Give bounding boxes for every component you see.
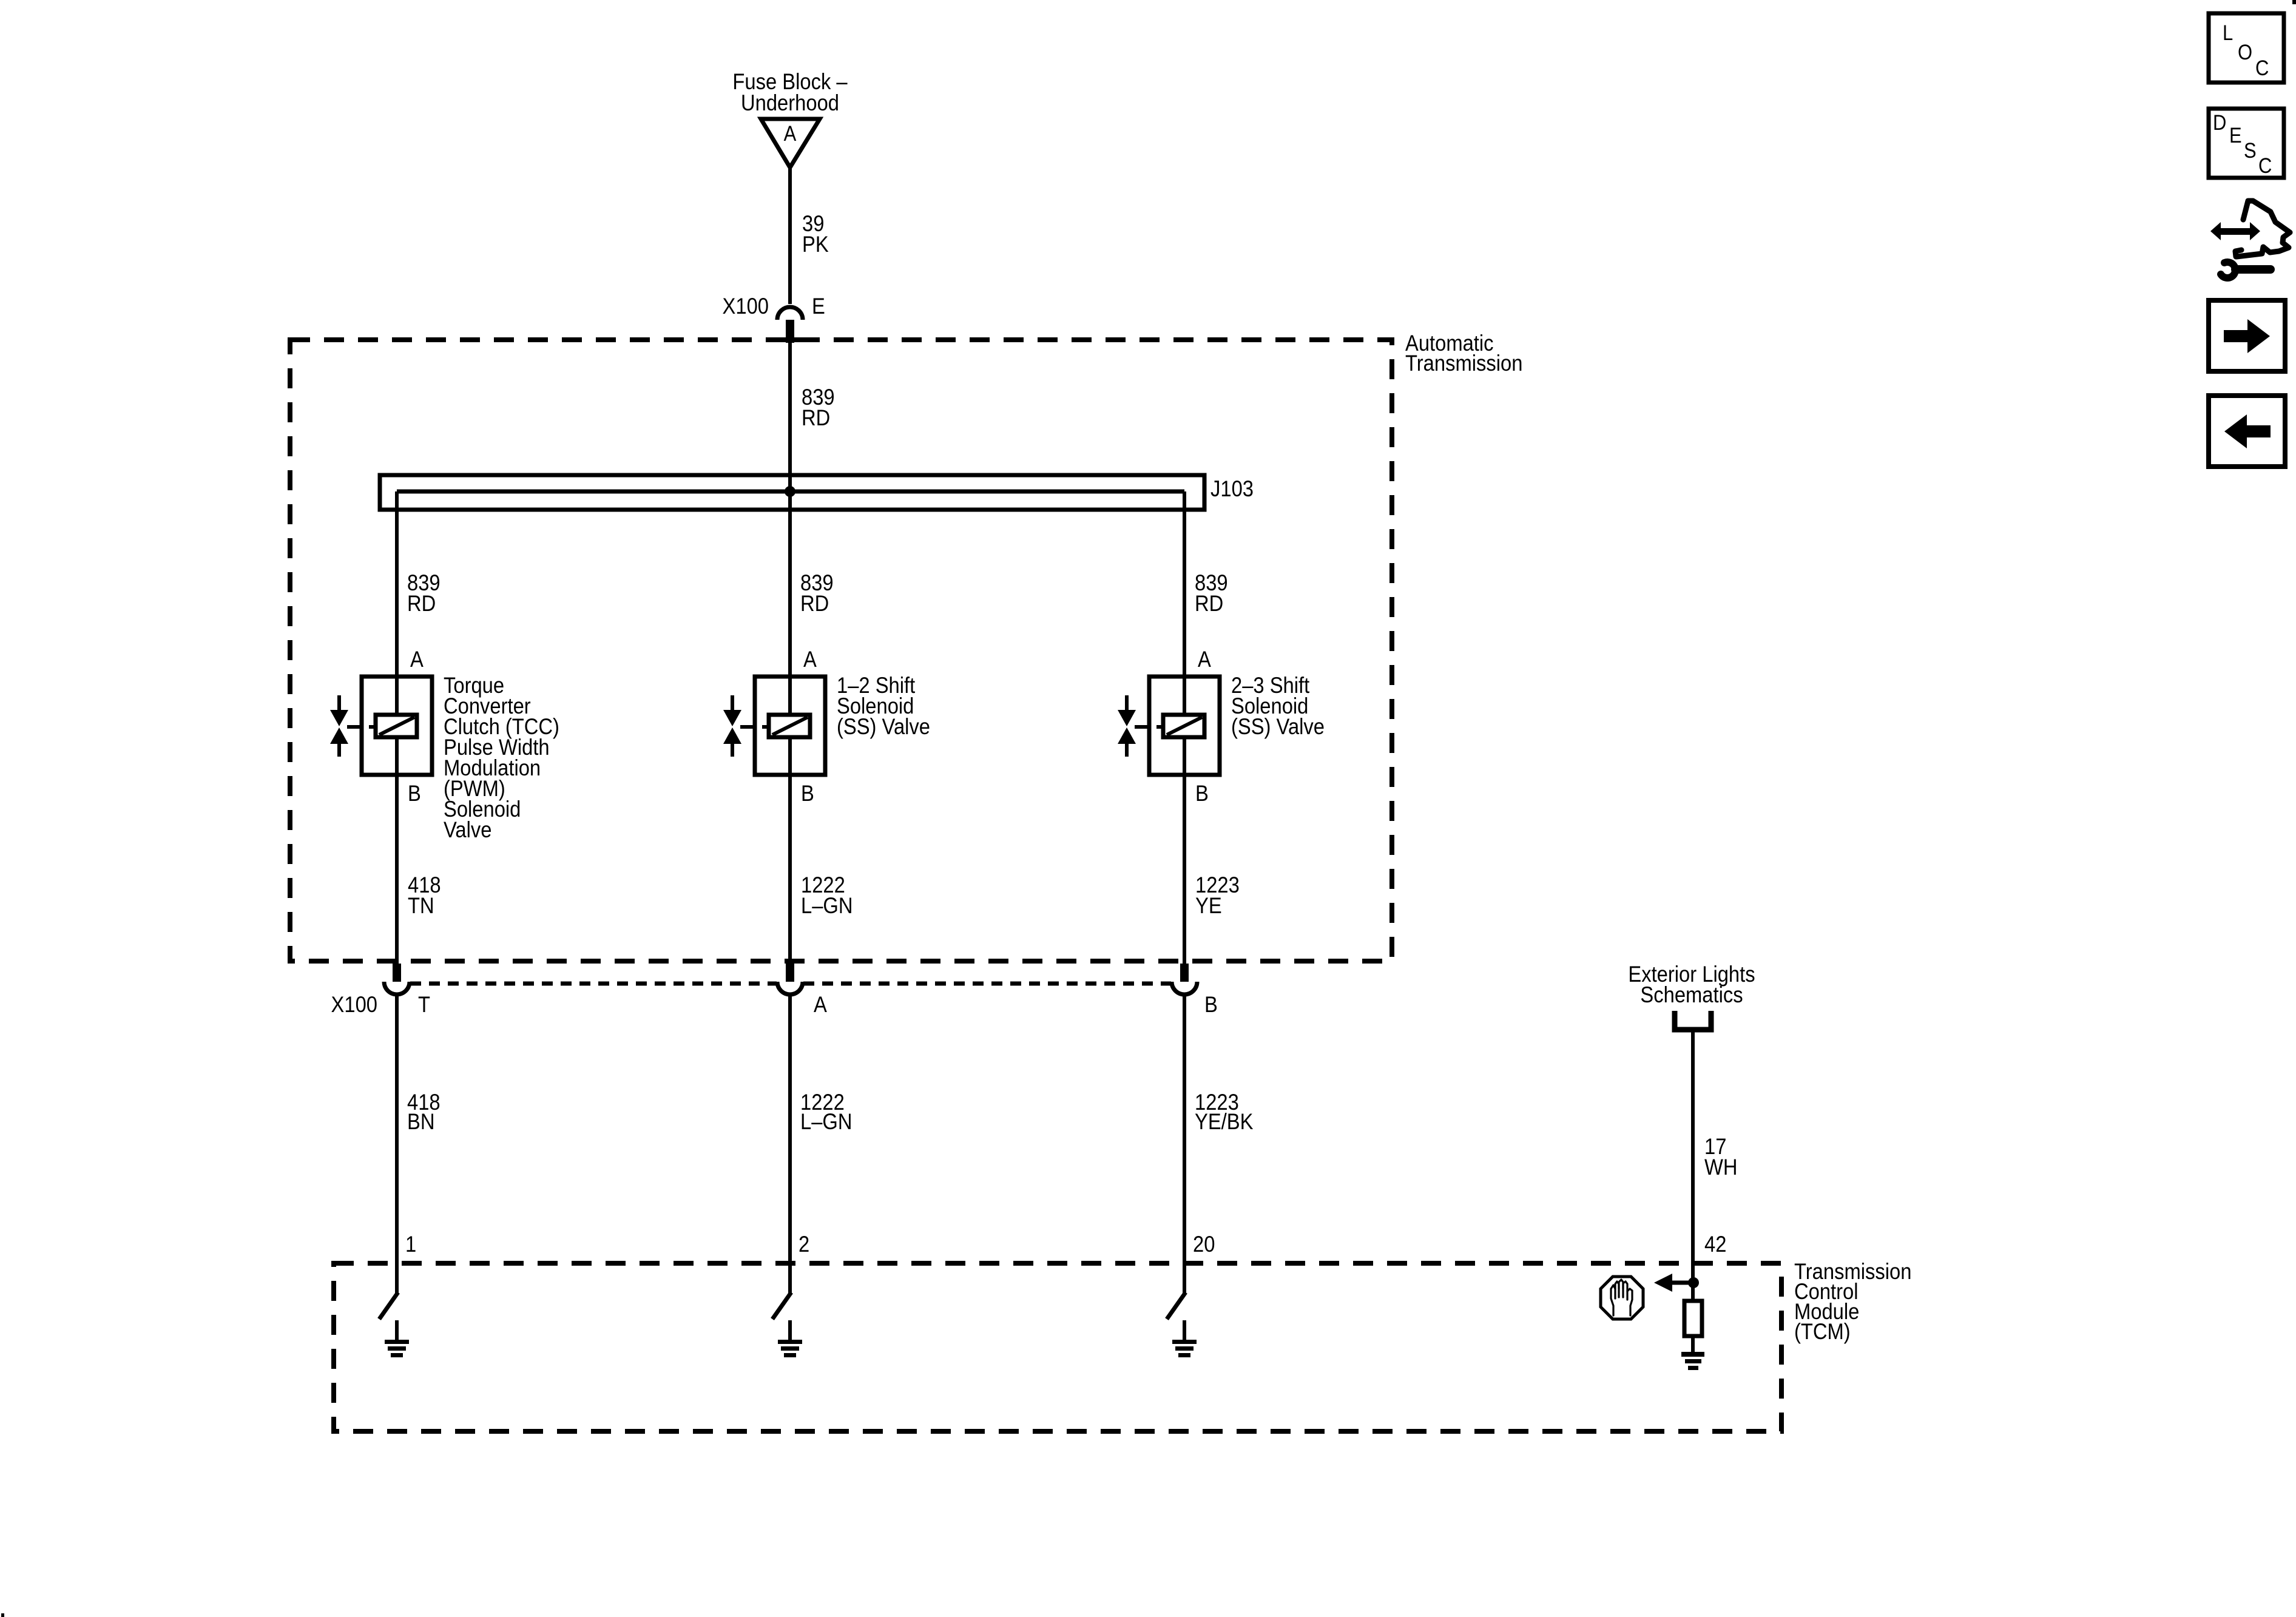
- wire through solenoid box: [788, 677, 792, 775]
- ground symbol: [385, 1340, 409, 1344]
- svg-text:L: L: [2223, 21, 2233, 45]
- connector X100 pin E: female terminal arc: [777, 307, 803, 320]
- valve actuator symbol (two opposed arrowheads) left of box: [337, 695, 341, 712]
- solenoid valve component box: 2-3 shift solenoid valve: [1149, 677, 1220, 775]
- solenoid valve component box: torque converter clutch PWM solenoid valve: [362, 677, 432, 775]
- link line valve to solenoid box: [1135, 725, 1149, 729]
- low-side driver switch inside TCM for torque converter clutch PWM solenoid valve: [379, 1292, 398, 1319]
- svg-text:RD: RD: [802, 405, 830, 430]
- double-headed arrow of icon: [2210, 222, 2260, 240]
- wire: J103 bus to 1-2 shift solenoid valve pin A (circuit 839 RD): [788, 491, 792, 677]
- splice J103 internal bus bar: [397, 490, 1184, 494]
- svg-text:A: A: [1198, 647, 1211, 672]
- svg-text:A: A: [803, 647, 817, 672]
- Transmission Control Module (TCM) dashed box: [334, 1263, 1781, 1431]
- wire: X100 B to TCM pin 20 (circuit 1223 YE/BK): [1183, 994, 1186, 1294]
- link line valve to solenoid box: [347, 725, 362, 729]
- wire: J103 bus to 2-3 shift solenoid valve pin A (circuit 839 RD): [1183, 491, 1186, 677]
- svg-text:B: B: [408, 781, 421, 806]
- svg-text:RD: RD: [1195, 591, 1223, 616]
- svg-text:B: B: [801, 781, 814, 806]
- wire: 1-2 shift solenoid valve pin B to X100 (circuit 1222): [788, 775, 792, 964]
- wire: Exterior Lights Schematics to TCM pin 42 (circuit 17 WH): [1691, 1030, 1695, 1301]
- svg-text:(SS) Valve: (SS) Valve: [837, 714, 930, 739]
- valve actuator symbol (two opposed arrowheads) left of box: [1125, 695, 1129, 712]
- svg-text:E: E: [2229, 124, 2242, 147]
- svg-text:B: B: [1204, 992, 1218, 1017]
- connector X100 pass-through: male terminal pin: [1180, 964, 1189, 982]
- svg-text:PK: PK: [802, 232, 829, 257]
- svg-text:Valve: Valve: [444, 817, 491, 842]
- wire: 2-3 shift solenoid valve pin B to X100 (circuit 1223): [1183, 775, 1186, 964]
- svg-text:X100: X100: [331, 992, 377, 1017]
- power feed triangle connector A from Fuse Block Underhood: [761, 119, 820, 167]
- low-side driver switch inside TCM for 2-3 shift solenoid valve: [1167, 1292, 1186, 1319]
- wire stub to ground: [788, 1320, 792, 1340]
- svg-text:BN: BN: [407, 1109, 434, 1134]
- svg-text:RD: RD: [800, 591, 829, 616]
- svg-text:RD: RD: [407, 591, 436, 616]
- connector X100 pass-through: female terminal arc: [777, 982, 803, 994]
- wire through solenoid box: [395, 677, 399, 775]
- LOC navigation icon box: [2209, 13, 2284, 83]
- wire: resistor to ground: [1691, 1336, 1695, 1352]
- svg-text:YE: YE: [1195, 893, 1222, 918]
- svg-text:TN: TN: [408, 893, 434, 918]
- svg-text:YE/BK: YE/BK: [1195, 1109, 1253, 1134]
- off-page connector bracket: [1675, 1011, 1711, 1030]
- DESC navigation icon box: [2209, 109, 2284, 178]
- solenoid coil symbol (rect with diagonal): [769, 715, 810, 737]
- connector X100 in-line connector dotted line (bottom row): [410, 982, 777, 986]
- svg-text:(TCM): (TCM): [1794, 1319, 1851, 1344]
- svg-text:(SS) Valve: (SS) Valve: [1231, 714, 1325, 739]
- svg-text:O: O: [2238, 41, 2252, 64]
- forward navigation icon (right arrow box): [2209, 300, 2285, 371]
- svg-text:42: 42: [1704, 1232, 1726, 1257]
- dash segment crossing X100 E pin on AT box edge: [780, 337, 800, 342]
- svg-text:X100: X100: [723, 294, 769, 319]
- svg-text:L–GN: L–GN: [801, 893, 853, 918]
- svg-text:20: 20: [1193, 1232, 1215, 1257]
- backward navigation icon (left arrow box): [2209, 396, 2285, 467]
- junction dot at pin 42 node: [1688, 1277, 1699, 1288]
- connector X100 pass-through: female terminal arc: [1172, 982, 1197, 994]
- wire through solenoid box: [1183, 677, 1186, 775]
- valve actuator symbol (two opposed arrowheads) left of box: [731, 695, 734, 712]
- svg-text:A: A: [784, 122, 797, 146]
- svg-text:1: 1: [405, 1232, 416, 1257]
- svg-text:S: S: [2244, 139, 2257, 163]
- solenoid coil symbol (rect with diagonal): [1163, 715, 1204, 737]
- connector X100 pass-through: male terminal pin: [393, 964, 401, 982]
- connector X100 pin E: male terminal (thick pin crossing box edge): [786, 320, 794, 343]
- wire: X100 E to splice J103 (circuit 839 RD): [788, 342, 792, 491]
- splice J103 outer box: [380, 475, 1204, 510]
- hand glyph inside octagon: [1611, 1280, 1632, 1315]
- page corner mark bottom-left: [1, 1613, 4, 1617]
- internal signal arrow (to logic) at pin 42: [1670, 1281, 1693, 1285]
- svg-text:C: C: [2258, 154, 2272, 178]
- svg-text:B: B: [1195, 781, 1209, 806]
- svg-text:Schematics: Schematics: [1640, 982, 1743, 1007]
- svg-text:E: E: [812, 294, 825, 319]
- pull-up/termination resistor inside TCM at pin 42: [1684, 1301, 1702, 1336]
- ground symbol: [778, 1340, 802, 1344]
- svg-text:WH: WH: [1704, 1155, 1738, 1180]
- wire: X100 A to TCM pin 2 (circuit 1222 L–GN): [788, 994, 792, 1294]
- wrench of icon: [2235, 265, 2271, 274]
- svg-text:J103: J103: [1210, 476, 1254, 501]
- wire: torque converter clutch PWM solenoid valve pin B to X100 (circuit 418): [395, 775, 399, 964]
- svg-text:A: A: [814, 992, 827, 1017]
- link line valve to solenoid box: [740, 725, 755, 729]
- wire: X100 T to TCM pin 1 (circuit 418 BN): [395, 994, 399, 1294]
- svg-text:C: C: [2255, 56, 2269, 80]
- svg-text:Underhood: Underhood: [741, 90, 839, 115]
- solenoid valve component box: 1-2 shift solenoid valve: [755, 677, 825, 775]
- svg-text:2: 2: [799, 1232, 809, 1257]
- low-side driver switch inside TCM for 1-2 shift solenoid valve: [772, 1292, 791, 1319]
- ground symbol: [1172, 1340, 1197, 1344]
- page corner mark top-right: [2292, 0, 2296, 4]
- junction dot on J103 bus at center wire: [785, 486, 795, 497]
- wire stub to ground: [1183, 1320, 1186, 1340]
- connector X100 pass-through: male terminal pin: [786, 964, 794, 982]
- svg-text:T: T: [418, 992, 430, 1017]
- wire: fuse block to connector X100 pin E: [788, 166, 792, 304]
- ground symbol (TCM internal): [1681, 1352, 1704, 1357]
- svg-text:L–GN: L–GN: [800, 1109, 853, 1134]
- wire: J103 bus to torque converter clutch PWM solenoid valve pin A (circuit 839 RD): [395, 491, 399, 677]
- solenoid coil symbol (rect with diagonal): [376, 715, 417, 737]
- svg-text:D: D: [2213, 111, 2226, 135]
- svg-text:A: A: [410, 647, 424, 672]
- schematic-section icon (double arrow, part outline, wrench): [2235, 201, 2290, 257]
- Automatic Transmission component dashed box: [290, 340, 1392, 961]
- svg-text:Transmission: Transmission: [1405, 351, 1522, 376]
- caution stop-hand octagon icon: [1601, 1277, 1643, 1319]
- wire stub to ground: [395, 1320, 399, 1340]
- connector X100 pass-through: female terminal arc: [384, 982, 410, 994]
